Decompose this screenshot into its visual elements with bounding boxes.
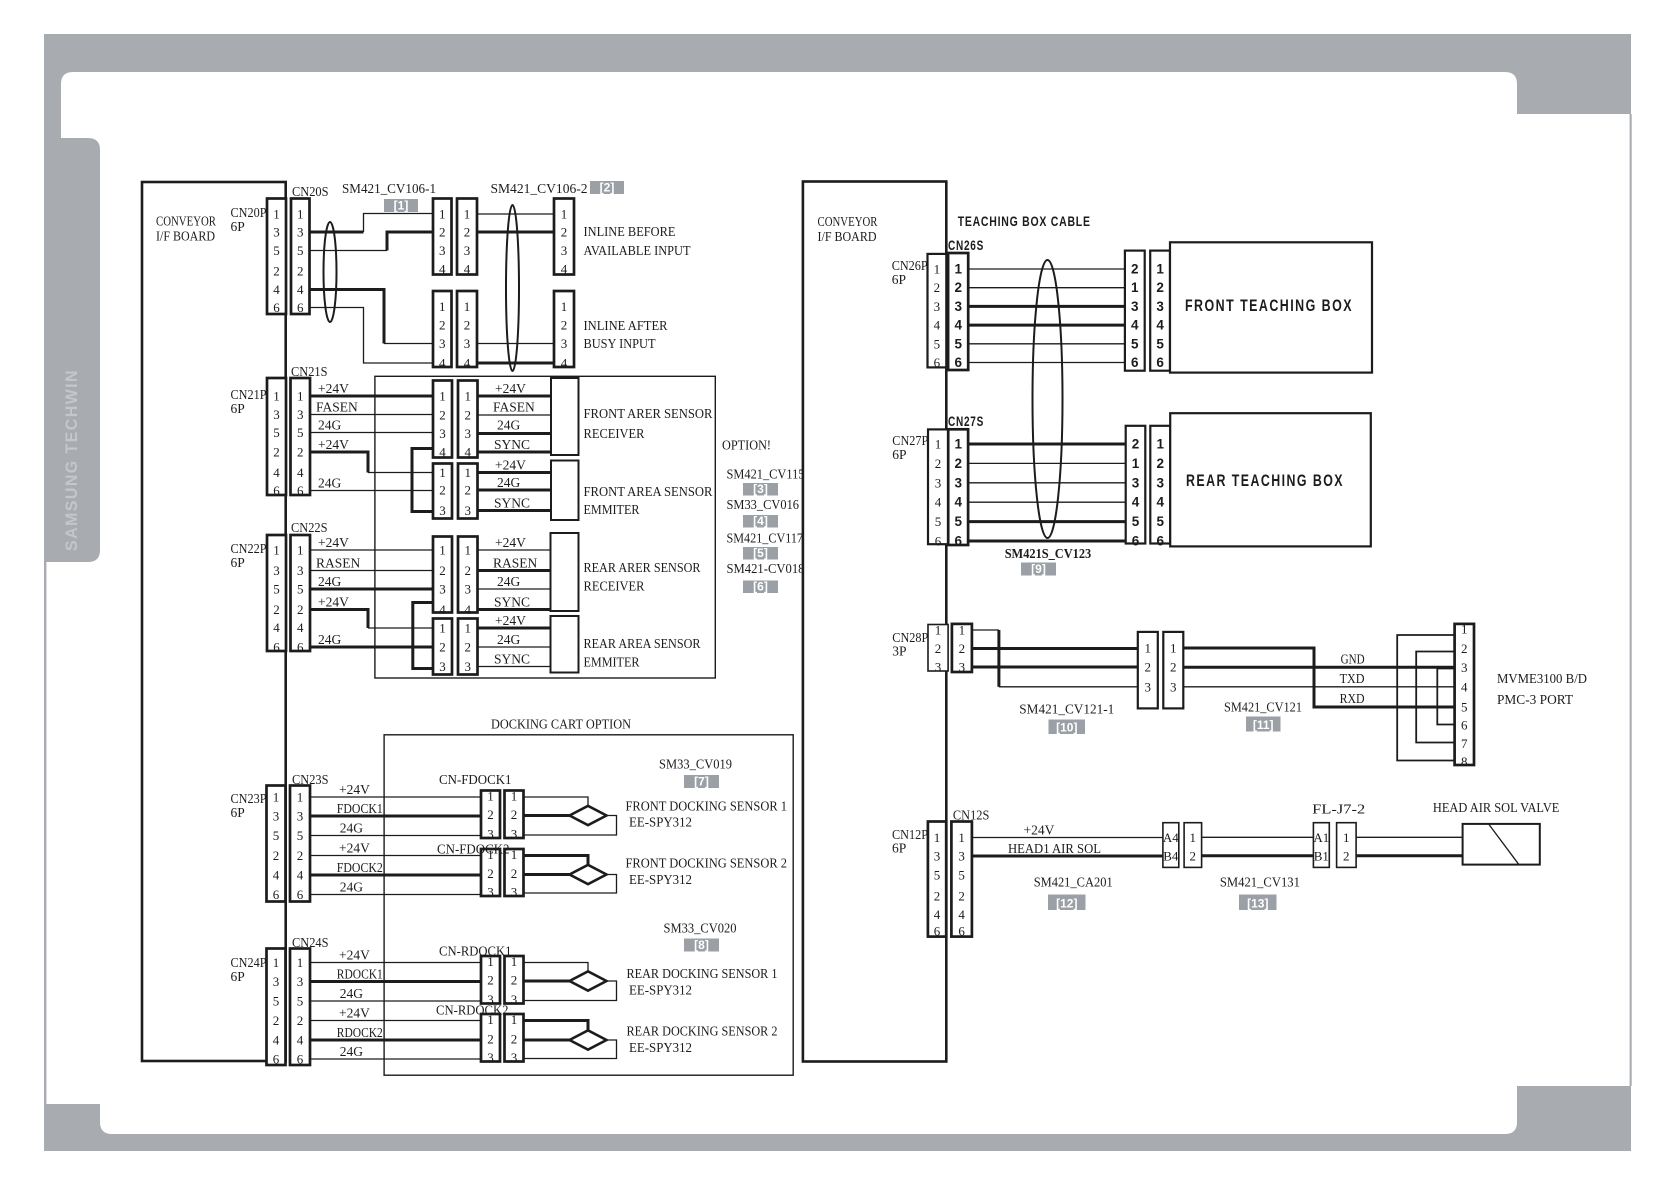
svg-text:+24V: +24V: [339, 782, 370, 797]
wire front receiver 24G: [478, 432, 552, 435]
svg-text:[12]: [12]: [1056, 897, 1077, 911]
svg-text:RECEIVER: RECEIVER: [584, 579, 645, 594]
svg-text:2: 2: [1170, 660, 1177, 675]
label FRONT DOCKING SENSOR 2 / EE-SPY312: [626, 856, 788, 888]
wire CN27S pin 6 to rear teaching box: [968, 540, 1126, 543]
svg-text:5: 5: [297, 994, 304, 1009]
svg-text:1: 1: [465, 465, 472, 480]
connector rear teaching plug: [1126, 426, 1146, 549]
cable ellipse CV106-1: [324, 222, 337, 322]
svg-text:2: 2: [958, 889, 965, 904]
wire CN23S pin 3 FDOCK1: [310, 815, 481, 818]
svg-text:MVME3100 B/D: MVME3100 B/D: [1497, 671, 1587, 686]
svg-text:5: 5: [934, 336, 941, 351]
svg-text:6: 6: [958, 924, 965, 939]
connector rear receiver socket: [458, 537, 478, 618]
connector rear receiver plug: [433, 537, 452, 618]
wire front receiver +24V: [478, 395, 552, 398]
svg-text:24G: 24G: [340, 880, 364, 895]
svg-text:4: 4: [297, 1033, 304, 1048]
svg-text:3: 3: [511, 885, 518, 900]
svg-text:4: 4: [297, 282, 304, 297]
connector rear emmiter plug: [433, 619, 452, 675]
svg-text:SM421-CV018: SM421-CV018: [727, 561, 805, 576]
badge [11]: [1246, 717, 1281, 733]
svg-text:+24V: +24V: [1024, 823, 1055, 838]
svg-text:3: 3: [487, 827, 494, 842]
label FRONT ARER SENSOR RECEIVER: [584, 406, 713, 441]
svg-text:1: 1: [1156, 437, 1164, 452]
svg-text:2: 2: [487, 807, 494, 822]
connector SM421_CV106-2 inline-before: [554, 199, 574, 277]
svg-text:6: 6: [273, 1052, 280, 1067]
svg-text:3: 3: [561, 243, 568, 258]
svg-text:2: 2: [935, 456, 942, 471]
svg-text:3: 3: [273, 563, 280, 578]
svg-text:1: 1: [439, 465, 446, 480]
svg-text:5: 5: [934, 868, 941, 883]
connector CN22S: [291, 535, 311, 655]
badge [5]: [743, 546, 778, 560]
svg-text:2: 2: [297, 602, 304, 617]
svg-text:1: 1: [297, 955, 304, 970]
svg-text:2: 2: [511, 866, 518, 881]
svg-text:24G: 24G: [318, 574, 342, 589]
photo sensor rear docking sensor 1: [570, 971, 607, 990]
svg-text:2: 2: [1461, 641, 1468, 656]
svg-text:2: 2: [439, 408, 446, 423]
svg-text:SM421_CV106-2: SM421_CV106-2: [491, 181, 588, 196]
svg-text:REAR DOCKING SENSOR 2: REAR DOCKING SENSOR 2: [627, 1024, 778, 1039]
svg-text:1: 1: [511, 789, 518, 804]
svg-text:3: 3: [439, 582, 446, 597]
head air sol valve symbol: [1463, 824, 1540, 865]
wire CN28S pin1 drop: [997, 630, 1000, 687]
svg-text:1: 1: [439, 621, 446, 636]
svg-text:7: 7: [1461, 736, 1468, 751]
svg-text:3: 3: [934, 849, 941, 864]
connector CN23P: [267, 786, 286, 903]
svg-text:[2]: [2]: [600, 181, 615, 195]
wire CN26S pin 1 to front teaching box: [968, 268, 1125, 270]
connector CN-FDOCK2 socket: [505, 847, 524, 900]
svg-text:3: 3: [487, 1050, 494, 1065]
wire CN-FDOCK1 pin2 to sensor left: [524, 814, 570, 817]
svg-text:1: 1: [465, 389, 472, 404]
svg-text:4: 4: [465, 602, 472, 617]
svg-text:5: 5: [273, 994, 280, 1009]
wire labels CN24S: [337, 948, 383, 1060]
svg-text:6: 6: [1461, 717, 1468, 732]
svg-text:4: 4: [934, 907, 941, 922]
svg-text:3: 3: [511, 992, 518, 1007]
svg-text:3: 3: [297, 809, 304, 824]
wire front receiver SYNC: [478, 451, 552, 454]
wire CN-RDOCK1 pin2 to sensor left: [524, 980, 570, 983]
page frame left sidebar tab: [44, 138, 100, 562]
connector CN-RDOCK2 plug: [481, 1012, 500, 1065]
connector CN20P: [267, 199, 286, 316]
svg-text:3: 3: [273, 225, 280, 240]
page frame top bar with right tab: [44, 34, 1631, 138]
connector CN27P: [928, 429, 948, 548]
photo sensor front docking sensor 2: [570, 865, 607, 884]
svg-text:24G: 24G: [318, 476, 342, 491]
svg-text:CN24P: CN24P: [231, 955, 267, 970]
svg-text:5: 5: [273, 243, 280, 258]
svg-text:1: 1: [511, 847, 518, 862]
svg-text:3: 3: [1131, 299, 1139, 314]
left conveyor I/F board outline: [142, 182, 286, 1061]
connector CN22P: [267, 535, 286, 655]
svg-text:EE-SPY312: EE-SPY312: [629, 983, 692, 998]
svg-text:+24V: +24V: [318, 381, 349, 396]
svg-text:TXD: TXD: [1340, 671, 1365, 686]
svg-text:6: 6: [954, 534, 962, 549]
svg-text:AVAILABLE INPUT: AVAILABLE INPUT: [584, 243, 692, 258]
svg-text:DOCKING CART OPTION: DOCKING CART OPTION: [491, 717, 631, 732]
wire rear emmiter +24V: [478, 627, 551, 630]
label CN26P 6P: [892, 258, 928, 287]
svg-text:1: 1: [439, 207, 446, 222]
svg-text:24G: 24G: [318, 632, 342, 647]
connector front receiver socket: [458, 381, 478, 460]
connector SM421_CV106-1 plug: [433, 199, 452, 277]
svg-text:24G: 24G: [340, 1044, 364, 1059]
svg-text:OPTION!: OPTION!: [722, 438, 771, 453]
svg-text:1: 1: [959, 623, 966, 638]
svg-text:+24V: +24V: [495, 458, 526, 473]
wire front emmiter SYNC: [478, 509, 552, 512]
wire labels CN21S: [316, 381, 358, 491]
svg-text:3: 3: [297, 407, 304, 422]
connector CN12S: [951, 822, 972, 939]
wire labels front emmiter: [494, 458, 530, 511]
wire GND from CV121 pin2: [1183, 666, 1454, 669]
photo sensor rear docking sensor 2: [570, 1030, 607, 1049]
wire CN22S pin3 RASEN: [310, 570, 433, 572]
svg-text:6P: 6P: [231, 805, 245, 820]
connector SM421_CV106-1 socket: [457, 199, 477, 277]
svg-text:PMC-3 PORT: PMC-3 PORT: [1497, 692, 1574, 707]
badge [10]: [1049, 720, 1086, 735]
page frame left line: [44, 562, 46, 1104]
svg-text:5: 5: [1461, 700, 1468, 715]
svg-text:2: 2: [464, 225, 471, 240]
right conveyor I/F board outline: [803, 182, 946, 1062]
label MVME3100 B/D PMC-3 PORT: [1497, 671, 1587, 707]
wire CN26S pin 4 to front teaching box: [968, 324, 1125, 327]
svg-text:2: 2: [954, 456, 962, 471]
svg-text:4: 4: [464, 262, 471, 277]
wire CN24S pin 2 +24V: [310, 1020, 481, 1022]
wire CN26S pin 5 to front teaching box: [968, 343, 1125, 345]
svg-text:2: 2: [273, 602, 280, 617]
svg-text:3: 3: [561, 336, 568, 351]
wire CN28S pin3 to CV121 pin2: [972, 666, 1138, 669]
wire rear emmiter SYNC: [478, 666, 551, 668]
svg-text:6: 6: [273, 640, 280, 655]
svg-text:2: 2: [439, 225, 446, 240]
wire CN20S pin5 riser: [387, 232, 433, 251]
svg-text:[10]: [10]: [1056, 721, 1077, 735]
svg-text:2: 2: [1131, 262, 1139, 277]
svg-text:EE-SPY312: EE-SPY312: [629, 815, 692, 830]
svg-text:6: 6: [273, 887, 280, 902]
svg-text:6P: 6P: [892, 447, 906, 462]
connector CN26P: [928, 254, 947, 370]
svg-text:1: 1: [1131, 280, 1139, 295]
svg-text:2: 2: [954, 280, 962, 295]
badge [9]: [1021, 562, 1056, 576]
svg-text:REAR DOCKING SENSOR 1: REAR DOCKING SENSOR 1: [627, 966, 778, 981]
wire front emmiter +24V: [478, 471, 552, 474]
connector CN-FDOCK1 plug: [481, 789, 500, 842]
svg-text:+24V: +24V: [339, 1006, 370, 1021]
svg-text:6: 6: [297, 1052, 304, 1067]
svg-text:3: 3: [465, 582, 472, 597]
wire CN21S pin5 24G: [310, 432, 433, 434]
svg-text:5: 5: [954, 336, 962, 351]
svg-text:6: 6: [273, 483, 280, 498]
area sensor option outline box: [375, 376, 715, 678]
svg-text:CONVEYOR: CONVEYOR: [818, 214, 878, 229]
front teaching box: [1170, 242, 1372, 372]
label REAR DOCKING SENSOR 1 / EE-SPY312: [627, 966, 778, 998]
svg-text:24G: 24G: [340, 821, 364, 836]
wire CV106 lower pin4 link: [477, 362, 554, 365]
svg-text:4: 4: [1131, 318, 1139, 333]
svg-text:1: 1: [465, 621, 472, 636]
connector SM421_CV106-1 lower plug: [433, 291, 452, 371]
rear teaching box: [1170, 413, 1371, 546]
svg-text:A1: A1: [1313, 830, 1329, 845]
svg-text:[6]: [6]: [753, 580, 768, 594]
wire CN22S pin6 24G: [310, 646, 433, 649]
wire CN22S pin2 tail: [368, 627, 433, 629]
wire CN-FDOCK1 pin1 to sensor top: [524, 797, 589, 807]
label FRONT DOCKING SENSOR 1 / EE-SPY312: [626, 799, 788, 830]
svg-text:FRONT DOCKING SENSOR 2: FRONT DOCKING SENSOR 2: [626, 856, 788, 871]
wire CN-RDOCK1 pin1 to sensor top: [524, 963, 589, 973]
label CN28P 3P: [892, 630, 928, 659]
svg-text:8: 8: [1461, 754, 1468, 769]
svg-text:5: 5: [935, 514, 942, 529]
wire CN23S pin 4 FDOCK2: [310, 874, 481, 877]
svg-text:CN-RDOCK1: CN-RDOCK1: [439, 944, 512, 959]
connector front teaching socket: [1150, 251, 1170, 371]
svg-text:3: 3: [439, 503, 446, 518]
svg-text:I/F BOARD: I/F BOARD: [818, 229, 877, 244]
svg-text:2: 2: [273, 848, 280, 863]
svg-text:1: 1: [487, 789, 494, 804]
connector SM421_CV121 plug: [1138, 632, 1158, 709]
sync link CN21 pairs: [412, 449, 433, 512]
badge [1]: [384, 199, 418, 213]
svg-text:3: 3: [487, 885, 494, 900]
label INLINE BEFORE / AVAILABLE INPUT: [584, 224, 692, 258]
label CN23P 6P: [231, 791, 267, 820]
svg-text:4: 4: [561, 262, 568, 277]
wire CN-FDOCK2 sensor return to pin3: [524, 875, 617, 894]
svg-text:4: 4: [273, 620, 280, 635]
svg-text:RXD: RXD: [1340, 691, 1365, 706]
wire CN27S pin 3 to rear teaching box: [968, 482, 1126, 484]
svg-text:B4: B4: [1163, 848, 1179, 863]
svg-text:2: 2: [439, 318, 446, 333]
svg-text:4: 4: [954, 318, 962, 333]
wire CN27S pin 1 to rear teaching box: [968, 443, 1126, 446]
svg-text:1: 1: [439, 543, 446, 558]
svg-text:CN20P: CN20P: [231, 205, 267, 220]
svg-text:+24V: +24V: [339, 948, 370, 963]
svg-text:3: 3: [958, 849, 965, 864]
wire CN24S pin 4 RDOCK2: [310, 1039, 481, 1042]
badge [3]: [743, 482, 778, 496]
svg-text:2: 2: [1156, 456, 1164, 471]
svg-text:1: 1: [273, 389, 280, 404]
svg-text:3: 3: [297, 225, 304, 240]
svg-text:1: 1: [935, 437, 942, 452]
svg-text:CN27S: CN27S: [948, 413, 984, 429]
connector SM421_CA201 plug: [1163, 823, 1179, 868]
wire labels CN22S: [316, 535, 361, 647]
svg-text:1: 1: [958, 830, 965, 845]
wire CN27S pin 5 to rear teaching box: [968, 520, 1126, 523]
svg-text:3: 3: [934, 299, 941, 314]
wire CN12S pin1 +24V: [972, 837, 1163, 839]
svg-text:6P: 6P: [231, 401, 245, 416]
connector CN26S: [948, 253, 968, 370]
svg-text:4: 4: [439, 262, 446, 277]
svg-text:3: 3: [273, 974, 280, 989]
wire CN20S pin4 tail: [384, 343, 433, 345]
wire CN24S pin 5 24G: [310, 1000, 481, 1002]
svg-text:6: 6: [1156, 534, 1164, 549]
svg-text:4: 4: [934, 318, 941, 333]
svg-text:[5]: [5]: [753, 546, 768, 560]
svg-text:CN21P: CN21P: [231, 387, 267, 402]
wire CV106 upper pin2 link: [477, 231, 554, 234]
svg-text:3: 3: [954, 299, 962, 314]
svg-text:[7]: [7]: [694, 775, 709, 789]
connector SM421_CV131 plug: [1313, 823, 1329, 868]
svg-text:INLINE BEFORE: INLINE BEFORE: [584, 224, 676, 239]
svg-text:3: 3: [511, 1050, 518, 1065]
connector CN21S: [291, 378, 311, 498]
svg-text:3: 3: [1461, 660, 1468, 675]
svg-text:1: 1: [439, 299, 446, 314]
page frame bottom bar with tabs: [44, 1086, 1631, 1151]
left board label: [156, 214, 216, 244]
svg-text:3: 3: [511, 827, 518, 842]
svg-text:CN26S: CN26S: [948, 237, 984, 253]
connector CN-RDOCK2 socket: [505, 1012, 524, 1065]
svg-text:+24V: +24V: [495, 381, 526, 396]
wire CN-FDOCK1 sensor return to pin3: [524, 816, 617, 836]
svg-text:FASEN: FASEN: [316, 400, 358, 415]
svg-text:1: 1: [1132, 456, 1140, 471]
svg-text:3: 3: [439, 426, 446, 441]
wire CN-FDOCK2 pin1 to sensor top: [524, 856, 589, 866]
svg-text:6: 6: [297, 887, 304, 902]
svg-text:3: 3: [297, 563, 304, 578]
wire CN27S pin 2 to rear teaching box: [968, 462, 1126, 464]
svg-text:5: 5: [297, 582, 304, 597]
wire rear emmiter 24G: [478, 646, 551, 648]
svg-text:4: 4: [273, 282, 280, 297]
svg-text:2: 2: [487, 866, 494, 881]
svg-text:RDOCK2: RDOCK2: [337, 1025, 383, 1040]
svg-text:2: 2: [487, 973, 494, 988]
svg-text:1: 1: [561, 299, 568, 314]
label REAR DOCKING SENSOR 2 / EE-SPY312: [627, 1024, 778, 1056]
wire CN22S pin1 +24V: [310, 549, 433, 551]
connector CN21P: [267, 378, 286, 498]
wire CN28S pin2 to CV121 pin1: [972, 647, 1138, 650]
svg-text:5: 5: [1156, 514, 1164, 529]
svg-text:5: 5: [297, 828, 304, 843]
svg-text:[4]: [4]: [753, 514, 768, 528]
wire CN21S pin1 +24V: [310, 395, 433, 398]
svg-text:3: 3: [465, 426, 472, 441]
svg-text:+24V: +24V: [318, 437, 349, 452]
svg-text:+24V: +24V: [495, 613, 526, 628]
svg-text:CN-FDOCK1: CN-FDOCK1: [439, 772, 512, 787]
connector CN12P: [928, 822, 946, 939]
svg-text:5: 5: [1132, 514, 1140, 529]
svg-text:4: 4: [561, 356, 568, 371]
svg-text:3: 3: [935, 475, 942, 490]
svg-text:1: 1: [1461, 622, 1468, 637]
svg-text:1: 1: [561, 207, 568, 222]
svg-text:2: 2: [273, 264, 280, 279]
svg-text:FRONT DOCKING SENSOR 1: FRONT DOCKING SENSOR 1: [626, 799, 788, 814]
svg-text:EE-SPY312: EE-SPY312: [629, 872, 692, 887]
svg-text:3: 3: [1145, 679, 1152, 694]
svg-text:A4: A4: [1163, 830, 1179, 845]
wire CN21S pin3 FASEN: [310, 414, 433, 416]
connector SM421_CA201 socket: [1184, 823, 1202, 868]
svg-text:3: 3: [464, 243, 471, 258]
label INLINE AFTER / BUSY INPUT: [584, 318, 668, 351]
connector CN24P: [267, 949, 286, 1067]
svg-text:FDOCK2: FDOCK2: [337, 860, 383, 875]
wire labels CN23S: [337, 782, 383, 895]
loopback pin3-pin6: [1437, 669, 1454, 725]
svg-text:INLINE AFTER: INLINE AFTER: [584, 318, 668, 333]
wire CN28S pin1 tail to CV121 pin3: [999, 686, 1138, 688]
svg-text:CONVEYOR: CONVEYOR: [156, 214, 216, 229]
svg-text:4: 4: [1156, 495, 1164, 510]
svg-text:24G: 24G: [340, 986, 364, 1001]
badge [2]: [590, 181, 624, 195]
svg-text:CN22S: CN22S: [291, 520, 328, 535]
svg-text:RECEIVER: RECEIVER: [584, 426, 645, 441]
svg-text:2: 2: [297, 1013, 304, 1028]
svg-text:3: 3: [439, 336, 446, 351]
svg-text:CN20S: CN20S: [292, 184, 329, 199]
svg-text:EMMITER: EMMITER: [584, 502, 640, 517]
svg-text:3: 3: [1156, 475, 1164, 490]
badge [7]: [684, 775, 719, 789]
badge [6]: [743, 580, 778, 594]
svg-text:3: 3: [1132, 475, 1140, 490]
connector SM421_CV131 socket: [1337, 823, 1357, 868]
connector CN-FDOCK1 socket: [505, 789, 524, 842]
wire CN22S pin2 +24V step: [310, 610, 368, 629]
connector MVME3100 PMC-3 port: [1455, 622, 1474, 770]
